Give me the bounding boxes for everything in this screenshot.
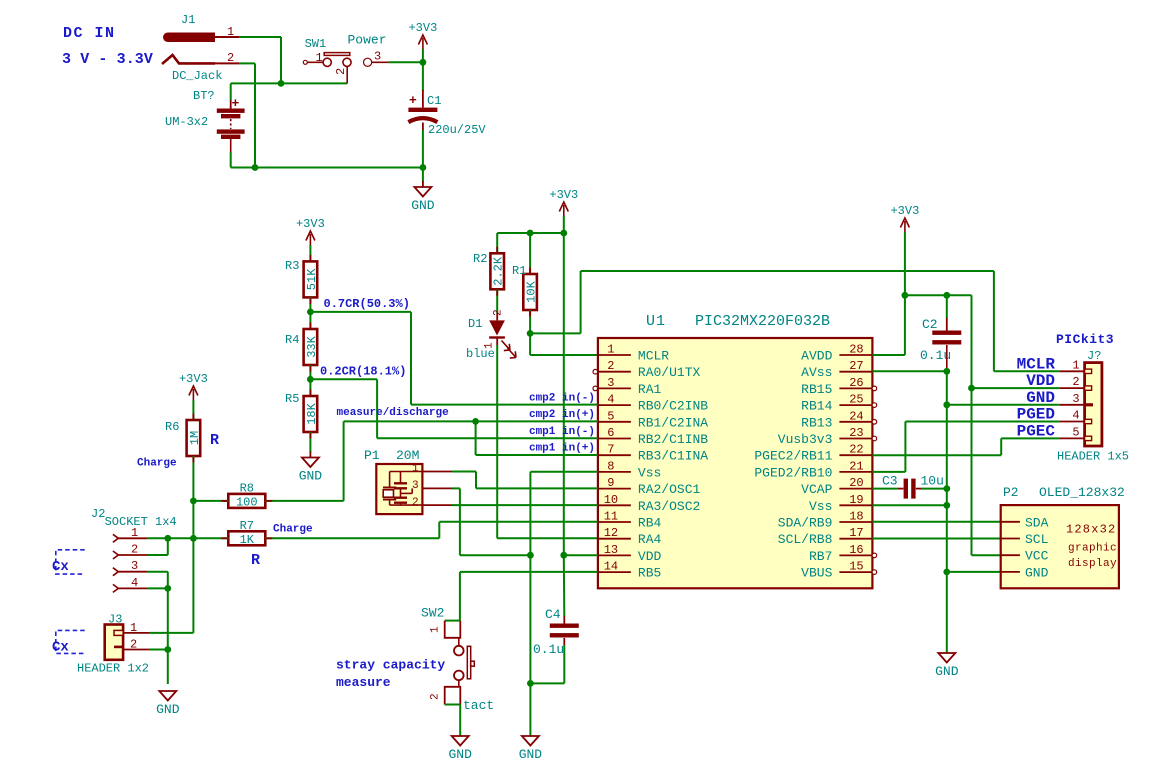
svg-text:HEADER 1x5: HEADER 1x5 <box>1057 450 1129 464</box>
svg-text:3: 3 <box>131 559 138 573</box>
svg-text:cmp2 in(+): cmp2 in(+) <box>529 409 595 421</box>
svg-text:RB2/C1INB: RB2/C1INB <box>638 432 708 447</box>
svg-text:VDD: VDD <box>1026 372 1055 390</box>
svg-text:0.2CR(18.1%): 0.2CR(18.1%) <box>320 365 406 379</box>
svg-text:SDA/RB9: SDA/RB9 <box>778 516 833 531</box>
svg-text:20: 20 <box>849 476 863 490</box>
svg-text:Charge: Charge <box>273 524 313 536</box>
svg-text:measure: measure <box>336 675 391 690</box>
svg-text:1: 1 <box>130 621 137 635</box>
svg-text:RB7: RB7 <box>809 549 832 564</box>
svg-text:R4: R4 <box>285 333 299 347</box>
svg-text:PGED2/RB10: PGED2/RB10 <box>754 465 832 480</box>
svg-text:AVDD: AVDD <box>801 349 832 364</box>
svg-text:VDD: VDD <box>638 549 662 564</box>
svg-text:PGEC: PGEC <box>1017 422 1056 440</box>
svg-text:220u/25V: 220u/25V <box>428 123 486 137</box>
svg-text:2: 2 <box>227 51 234 65</box>
svg-text:R: R <box>210 432 219 449</box>
svg-text:P2: P2 <box>1003 485 1019 500</box>
svg-text:20M: 20M <box>396 448 419 463</box>
svg-text:26: 26 <box>849 376 863 390</box>
svg-text:3: 3 <box>374 50 381 64</box>
svg-text:1: 1 <box>607 343 614 357</box>
svg-text:OLED_128x32: OLED_128x32 <box>1039 485 1125 500</box>
svg-text:128x32: 128x32 <box>1066 523 1116 537</box>
svg-text:RB5: RB5 <box>638 566 661 581</box>
svg-text:C2: C2 <box>922 317 938 332</box>
svg-text:1: 1 <box>412 463 419 475</box>
svg-text:P1: P1 <box>364 448 380 463</box>
svg-text:RA3/OSC2: RA3/OSC2 <box>638 499 700 514</box>
svg-text:2: 2 <box>1072 375 1079 389</box>
svg-text:33K: 33K <box>305 335 319 357</box>
svg-text:28: 28 <box>849 343 863 357</box>
svg-text:4: 4 <box>607 393 614 407</box>
svg-text:+: + <box>409 93 417 108</box>
svg-text:MCLR: MCLR <box>638 349 669 364</box>
svg-text:PICkit3: PICkit3 <box>1056 332 1114 347</box>
svg-text:4: 4 <box>131 576 138 590</box>
svg-text:C1: C1 <box>427 94 441 108</box>
svg-text:22: 22 <box>849 443 863 457</box>
svg-text:R: R <box>251 552 260 569</box>
svg-text:10u: 10u <box>921 474 944 489</box>
svg-text:J2: J2 <box>91 507 105 521</box>
svg-text:GND: GND <box>1025 565 1049 580</box>
svg-text:1: 1 <box>430 626 442 633</box>
svg-text:Cx: Cx <box>52 559 69 575</box>
svg-text:SOCKET 1x4: SOCKET 1x4 <box>105 515 177 529</box>
svg-text:9: 9 <box>607 476 614 490</box>
svg-text:2: 2 <box>493 309 505 316</box>
svg-text:Vusb3v3: Vusb3v3 <box>778 432 833 447</box>
svg-text:13: 13 <box>604 543 618 557</box>
svg-text:2: 2 <box>430 693 442 700</box>
svg-text:DC_Jack: DC_Jack <box>172 69 222 83</box>
svg-text:7: 7 <box>607 443 614 457</box>
svg-text:1K: 1K <box>240 533 255 547</box>
svg-text:3 V - 3.3V: 3 V - 3.3V <box>62 51 153 68</box>
svg-text:100: 100 <box>236 496 258 510</box>
svg-text:+3V3: +3V3 <box>296 217 325 231</box>
svg-text:J1: J1 <box>181 13 195 27</box>
svg-text:23: 23 <box>849 426 863 440</box>
svg-text:10: 10 <box>604 493 618 507</box>
svg-text:12: 12 <box>604 526 618 540</box>
svg-text:U1: U1 <box>646 313 666 330</box>
svg-text:R6: R6 <box>165 420 179 434</box>
svg-text:GND: GND <box>519 747 543 762</box>
svg-text:cmp1 in(-): cmp1 in(-) <box>529 426 595 438</box>
svg-text:1: 1 <box>316 51 323 65</box>
svg-text:1: 1 <box>227 25 234 39</box>
svg-text:2: 2 <box>131 543 138 557</box>
svg-text:Cx: Cx <box>52 640 69 656</box>
svg-text:stray capacity: stray capacity <box>336 658 445 673</box>
svg-text:VBUS: VBUS <box>801 566 832 581</box>
svg-text:27: 27 <box>849 359 863 373</box>
svg-text:R3: R3 <box>285 259 299 273</box>
svg-text:blue: blue <box>466 347 495 361</box>
svg-text:DC IN: DC IN <box>63 25 116 42</box>
svg-text:R7: R7 <box>240 519 254 533</box>
svg-text:5: 5 <box>1072 425 1079 439</box>
svg-text:J3: J3 <box>108 613 122 627</box>
svg-text:+3V3: +3V3 <box>179 372 208 386</box>
svg-text:1: 1 <box>1072 358 1079 372</box>
svg-text:VCC: VCC <box>1025 549 1049 564</box>
svg-text:RA0/U1TX: RA0/U1TX <box>638 365 701 380</box>
svg-text:1M: 1M <box>188 431 202 445</box>
svg-text:C4: C4 <box>545 607 561 622</box>
svg-text:16: 16 <box>849 543 863 557</box>
svg-text:AVss: AVss <box>801 365 832 380</box>
svg-text:SW1: SW1 <box>305 37 327 51</box>
svg-text:R2: R2 <box>473 252 487 266</box>
svg-text:display: display <box>1068 558 1117 570</box>
svg-text:5: 5 <box>607 409 614 423</box>
svg-text:0.1u: 0.1u <box>533 642 564 657</box>
svg-text:17: 17 <box>849 526 863 540</box>
svg-text:GND: GND <box>935 664 959 679</box>
svg-text:PGED: PGED <box>1017 406 1055 424</box>
svg-text:Power: Power <box>348 33 387 48</box>
svg-text:GND: GND <box>411 198 435 213</box>
svg-text:RB4: RB4 <box>638 516 662 531</box>
svg-text:+3V3: +3V3 <box>549 188 578 202</box>
svg-text:3: 3 <box>607 376 614 390</box>
svg-text:RB15: RB15 <box>801 382 832 397</box>
svg-text:2: 2 <box>412 497 419 509</box>
svg-text:2: 2 <box>130 638 137 652</box>
svg-text:GND: GND <box>156 702 180 717</box>
svg-text:18: 18 <box>849 510 863 524</box>
svg-text:6: 6 <box>607 426 614 440</box>
svg-text:RB14: RB14 <box>801 399 832 414</box>
svg-text:GND: GND <box>1026 389 1055 407</box>
svg-text:RB13: RB13 <box>801 415 832 430</box>
svg-text:SW2: SW2 <box>421 606 444 621</box>
svg-text:24: 24 <box>849 409 863 423</box>
svg-text:0.7CR(50.3%): 0.7CR(50.3%) <box>324 297 410 311</box>
svg-text:GND: GND <box>448 747 472 762</box>
svg-text:RA4: RA4 <box>638 532 662 547</box>
svg-text:25: 25 <box>849 393 863 407</box>
svg-text:2.2K: 2.2K <box>492 256 506 286</box>
svg-text:R1: R1 <box>512 264 526 278</box>
svg-text:R5: R5 <box>285 392 299 406</box>
svg-text:R8: R8 <box>240 481 254 495</box>
svg-text:15: 15 <box>849 560 863 574</box>
svg-text:cmp2 in(-): cmp2 in(-) <box>529 393 595 405</box>
svg-text:21: 21 <box>849 459 863 473</box>
svg-text:MCLR: MCLR <box>1017 355 1056 373</box>
svg-text:C3: C3 <box>882 474 898 489</box>
svg-text:1: 1 <box>131 526 138 540</box>
svg-text:HEADER 1x2: HEADER 1x2 <box>77 662 149 676</box>
svg-text:RA1: RA1 <box>638 382 662 397</box>
svg-text:J?: J? <box>1087 349 1101 363</box>
svg-text:11: 11 <box>604 510 618 524</box>
svg-text:RB1/C2INA: RB1/C2INA <box>638 415 708 430</box>
svg-text:4: 4 <box>1072 409 1079 423</box>
svg-text:3: 3 <box>1072 392 1079 406</box>
svg-text:graphic: graphic <box>1068 543 1117 555</box>
svg-text:Vss: Vss <box>809 499 832 514</box>
svg-text:SCL/RB8: SCL/RB8 <box>778 532 833 547</box>
svg-text:UM-3x2: UM-3x2 <box>165 115 208 129</box>
svg-text:PGEC2/RB11: PGEC2/RB11 <box>754 449 832 464</box>
svg-text:+3V3: +3V3 <box>408 21 437 35</box>
svg-text:RA2/OSC1: RA2/OSC1 <box>638 482 701 497</box>
svg-text:Charge: Charge <box>137 458 177 470</box>
svg-text:RB3/C1INA: RB3/C1INA <box>638 449 708 464</box>
svg-text:2: 2 <box>334 68 348 75</box>
svg-text:tact: tact <box>463 698 494 713</box>
svg-text:PIC32MX220F032B: PIC32MX220F032B <box>695 313 830 330</box>
svg-text:SDA: SDA <box>1025 515 1049 530</box>
svg-text:VCAP: VCAP <box>801 482 832 497</box>
svg-text:measure/discharge: measure/discharge <box>337 407 450 419</box>
svg-text:+3V3: +3V3 <box>890 204 919 218</box>
svg-text:10K: 10K <box>525 280 539 302</box>
svg-text:BT?: BT? <box>193 89 215 103</box>
svg-text:51K: 51K <box>305 268 319 290</box>
svg-text:Vss: Vss <box>638 465 661 480</box>
svg-text:D1: D1 <box>468 317 482 331</box>
svg-text:18K: 18K <box>305 402 319 424</box>
svg-text:14: 14 <box>604 560 618 574</box>
svg-text:SCL: SCL <box>1025 532 1048 547</box>
svg-text:cmp1 in(+): cmp1 in(+) <box>529 443 595 455</box>
svg-text:19: 19 <box>849 493 863 507</box>
svg-text:8: 8 <box>607 459 614 473</box>
svg-text:GND: GND <box>299 469 323 484</box>
svg-text:2: 2 <box>607 359 614 373</box>
svg-text:RB0/C2INB: RB0/C2INB <box>638 399 708 414</box>
